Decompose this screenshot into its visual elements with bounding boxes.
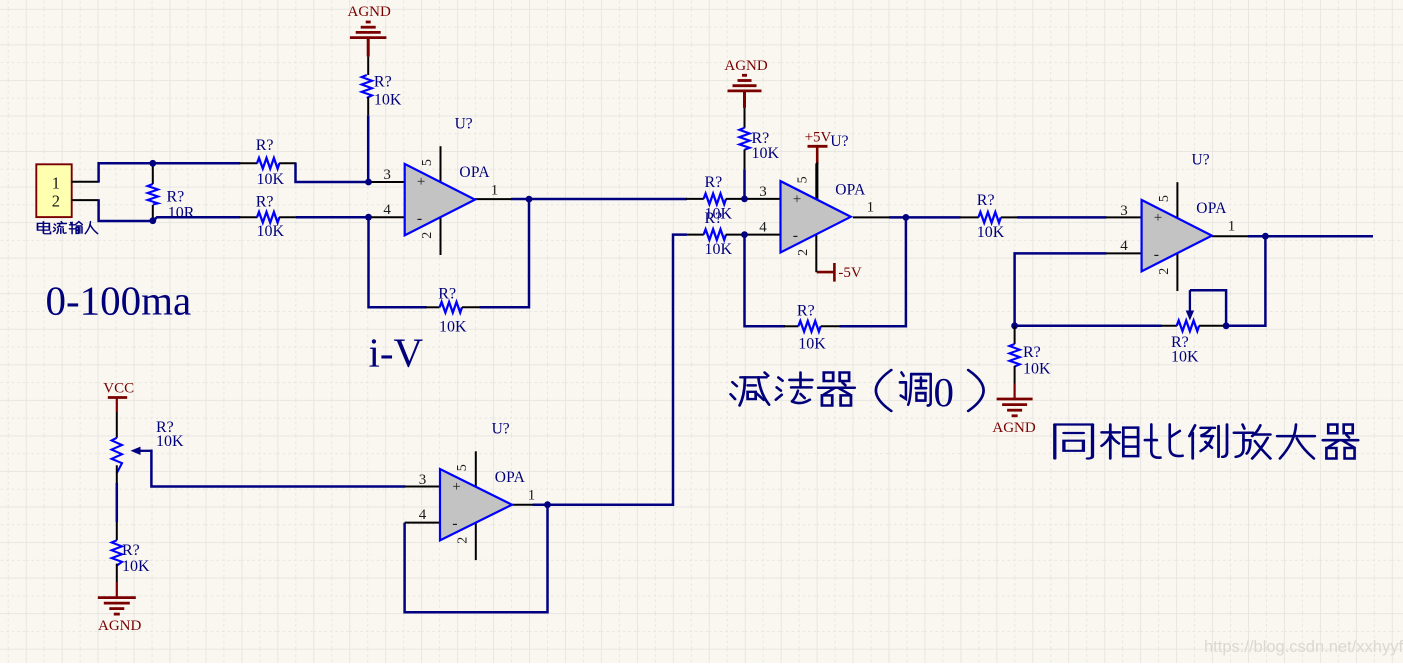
svg-text:U?: U?: [492, 421, 510, 438]
svg-text:10K: 10K: [1023, 361, 1051, 378]
svg-text:U?: U?: [1192, 152, 1210, 169]
svg-text:R?: R?: [705, 210, 723, 227]
junction pot right: [1223, 322, 1230, 329]
svg-text:+: +: [793, 191, 801, 207]
resistor R? 10K (divider bottom): [112, 522, 150, 582]
wire AGND2 resistor to pin3 U2: [743, 169, 746, 198]
svg-text:2: 2: [1157, 268, 1172, 275]
resistor R? 10K (U3 to AGND): [1009, 326, 1051, 384]
resistor R? 10K (top row): [239, 137, 296, 188]
resistor R? 10K (U2 pin4 input): [686, 210, 745, 258]
wire wiper to pin3 U4: [150, 451, 405, 487]
svg-text:R?: R?: [256, 137, 274, 154]
ground AGND4: [98, 582, 142, 634]
wire R to pin3 U3: [1017, 216, 1106, 219]
svg-text:10K: 10K: [439, 319, 467, 336]
svg-text:0: 0: [934, 369, 955, 415]
pin3 lead U4: [405, 486, 440, 488]
svg-text:1: 1: [1228, 218, 1236, 234]
svg-text:i-V: i-V: [369, 330, 424, 376]
wire pot to lower resistor: [116, 483, 119, 522]
svg-text:R?: R?: [374, 74, 392, 91]
svg-text:+5V: +5V: [805, 130, 832, 146]
ground AGND top-left (rotated): [348, 4, 391, 57]
wire U1 feedback loop: [369, 217, 427, 307]
svg-text:R?: R?: [167, 189, 185, 206]
junction output U1: [526, 196, 533, 203]
resistor R? 10K (U3 input): [960, 192, 1018, 241]
svg-text:2: 2: [455, 537, 470, 544]
wire bottom row to pin4: [296, 216, 370, 219]
svg-text:10K: 10K: [977, 224, 1005, 241]
svg-text:5: 5: [455, 464, 470, 471]
wire pin1 to node A: [99, 163, 241, 182]
pin4 lead U1: [369, 216, 405, 218]
wiper arrow VCC pot: [131, 447, 152, 455]
svg-text:VCC: VCC: [103, 381, 134, 397]
svg-text:10R: 10R: [168, 204, 195, 221]
svg-text:10K: 10K: [1171, 349, 1199, 366]
output lead U2: [853, 216, 890, 218]
svg-text:R?: R?: [1023, 344, 1041, 361]
svg-text:10K: 10K: [798, 335, 826, 352]
junction pin3 U1: [365, 179, 372, 186]
svg-text:2: 2: [420, 232, 435, 239]
svg-text:-: -: [452, 515, 457, 532]
output lead U4: [512, 504, 534, 506]
svg-text:10K: 10K: [374, 92, 402, 109]
svg-text:1: 1: [52, 174, 60, 193]
wire U2 feedback loop: [745, 235, 786, 327]
svg-text:10K: 10K: [122, 558, 150, 575]
svg-text:4: 4: [419, 507, 427, 523]
wire U2 output to U3: [889, 216, 961, 219]
svg-text:10K: 10K: [752, 145, 780, 162]
pin3 lead U2: [745, 198, 781, 200]
svg-text:3: 3: [1120, 203, 1128, 219]
output lead U1: [475, 198, 512, 200]
junction pin4 U1: [365, 214, 372, 221]
resistor R? 10R shunt: [148, 163, 195, 221]
svg-text:1: 1: [491, 182, 499, 198]
svg-text:R?: R?: [705, 174, 723, 191]
svg-text:AGND: AGND: [348, 4, 391, 20]
svg-text:3: 3: [383, 167, 391, 183]
svg-text:5: 5: [1157, 195, 1172, 202]
wire wiper bracket: [1190, 290, 1226, 326]
wire feedback to output U1: [480, 199, 530, 307]
wire U1 output to U2: [511, 198, 687, 201]
svg-text:OPA: OPA: [835, 181, 866, 198]
svg-text:5: 5: [420, 159, 435, 166]
wire pin2 to node B: [99, 199, 241, 221]
text 减法器（调0）: [731, 369, 984, 415]
wire AGND1 resistor to pin3 node: [367, 115, 370, 182]
junction output U4: [544, 501, 551, 508]
pin4 lead U4: [405, 522, 440, 524]
wire top row to pin3: [296, 163, 370, 182]
svg-text:10K: 10K: [257, 171, 285, 188]
svg-text:AGND: AGND: [98, 618, 141, 634]
label 电流输入: [38, 222, 98, 234]
svg-text:+: +: [417, 174, 425, 190]
junction output U2: [903, 214, 910, 221]
svg-text:1: 1: [867, 200, 875, 216]
svg-text:2: 2: [796, 249, 811, 256]
junction node A: [149, 160, 156, 167]
svg-text:U?: U?: [830, 133, 848, 150]
connector 电流输入: [36, 164, 98, 217]
svg-text:-: -: [417, 210, 422, 227]
svg-text:10K: 10K: [257, 223, 285, 240]
wire pin4 U3 from divider: [1015, 253, 1107, 325]
wire U4 feedback loop: [405, 505, 548, 613]
power -5V U2: [817, 263, 862, 282]
resistor R? 10K feedback U2: [784, 303, 841, 353]
power +5V U2: [805, 130, 832, 165]
svg-text:1: 1: [528, 488, 536, 504]
wire feedback to output U2: [840, 217, 906, 326]
wire pot to output U3: [1226, 236, 1265, 326]
svg-text:AGND: AGND: [724, 58, 767, 74]
svg-text:+: +: [452, 479, 460, 495]
svg-text:4: 4: [1120, 238, 1128, 254]
svg-text:-: -: [1154, 246, 1159, 263]
resistor R? 10K (U2 pin3 input): [686, 174, 745, 223]
wiper arrow U3 pot: [1186, 290, 1194, 320]
svg-text:R?: R?: [256, 193, 274, 210]
svg-text:U?: U?: [455, 116, 473, 133]
pin3 lead U1: [369, 181, 405, 183]
power VCC: [103, 381, 134, 412]
svg-text:5: 5: [796, 176, 811, 183]
svg-text:R?: R?: [797, 303, 815, 320]
junction divider left: [1011, 322, 1018, 329]
svg-text:2: 2: [52, 192, 60, 211]
svg-text:3: 3: [419, 472, 427, 488]
junction node B: [149, 217, 156, 224]
svg-text:0-100ma: 0-100ma: [46, 278, 192, 324]
resistor R? 10K feedback U1: [426, 286, 481, 336]
svg-text:R?: R?: [122, 542, 140, 559]
op-amp U? (i-V): [440, 146, 442, 183]
op-amp U? (gain): [1176, 182, 1178, 219]
text 同相比例放大器: [1055, 424, 1358, 458]
svg-text:3: 3: [759, 184, 767, 200]
svg-text:4: 4: [759, 219, 767, 235]
svg-text:10K: 10K: [705, 241, 733, 258]
wire U3 output: [1248, 235, 1373, 238]
junction pin4 U2: [741, 231, 748, 238]
junction pin3 U2: [741, 196, 748, 203]
pin4 lead U2: [745, 234, 781, 236]
op-amp U? (buffer): [475, 451, 477, 488]
svg-text:OPA: OPA: [495, 469, 526, 486]
pin4 lead U3: [1106, 252, 1142, 254]
junction output U3: [1262, 233, 1269, 240]
resistor R? 10K (AGND2 pulldown): [739, 108, 779, 169]
svg-text:R?: R?: [438, 286, 456, 303]
wire buffer output to U2 pin4: [547, 235, 688, 505]
svg-text:4: 4: [383, 202, 391, 218]
resistor R? 10K (AGND1 pulldown): [362, 57, 402, 116]
svg-text:10K: 10K: [156, 433, 184, 450]
wire U4 output: [533, 503, 549, 506]
ground AGND2 (rotated): [724, 58, 767, 108]
resistor R? 10K (bottom row): [239, 193, 296, 240]
svg-text:OPA: OPA: [1196, 200, 1227, 217]
pin3 lead U3: [1106, 216, 1142, 218]
wire divider bottom row: [1015, 325, 1162, 328]
svg-text:+: +: [1154, 210, 1162, 226]
svg-text:OPA: OPA: [459, 164, 490, 181]
svg-text:-5V: -5V: [838, 265, 861, 281]
svg-text:https://blog.csdn.net/xxhyyf: https://blog.csdn.net/xxhyyf: [1204, 638, 1403, 656]
potentiometer R? 10K feedback U3: [1161, 321, 1226, 366]
svg-text:R?: R?: [977, 192, 995, 209]
ground AGND3: [992, 384, 1035, 437]
output lead U3: [1212, 235, 1249, 237]
potentiometer R? 10K (VCC divider): [112, 412, 184, 483]
svg-text:-: -: [793, 227, 798, 244]
pin5 supply lead U2: [816, 162, 818, 200]
svg-text:AGND: AGND: [992, 420, 1035, 436]
op-amp U? (subtractor): [815, 163, 817, 200]
